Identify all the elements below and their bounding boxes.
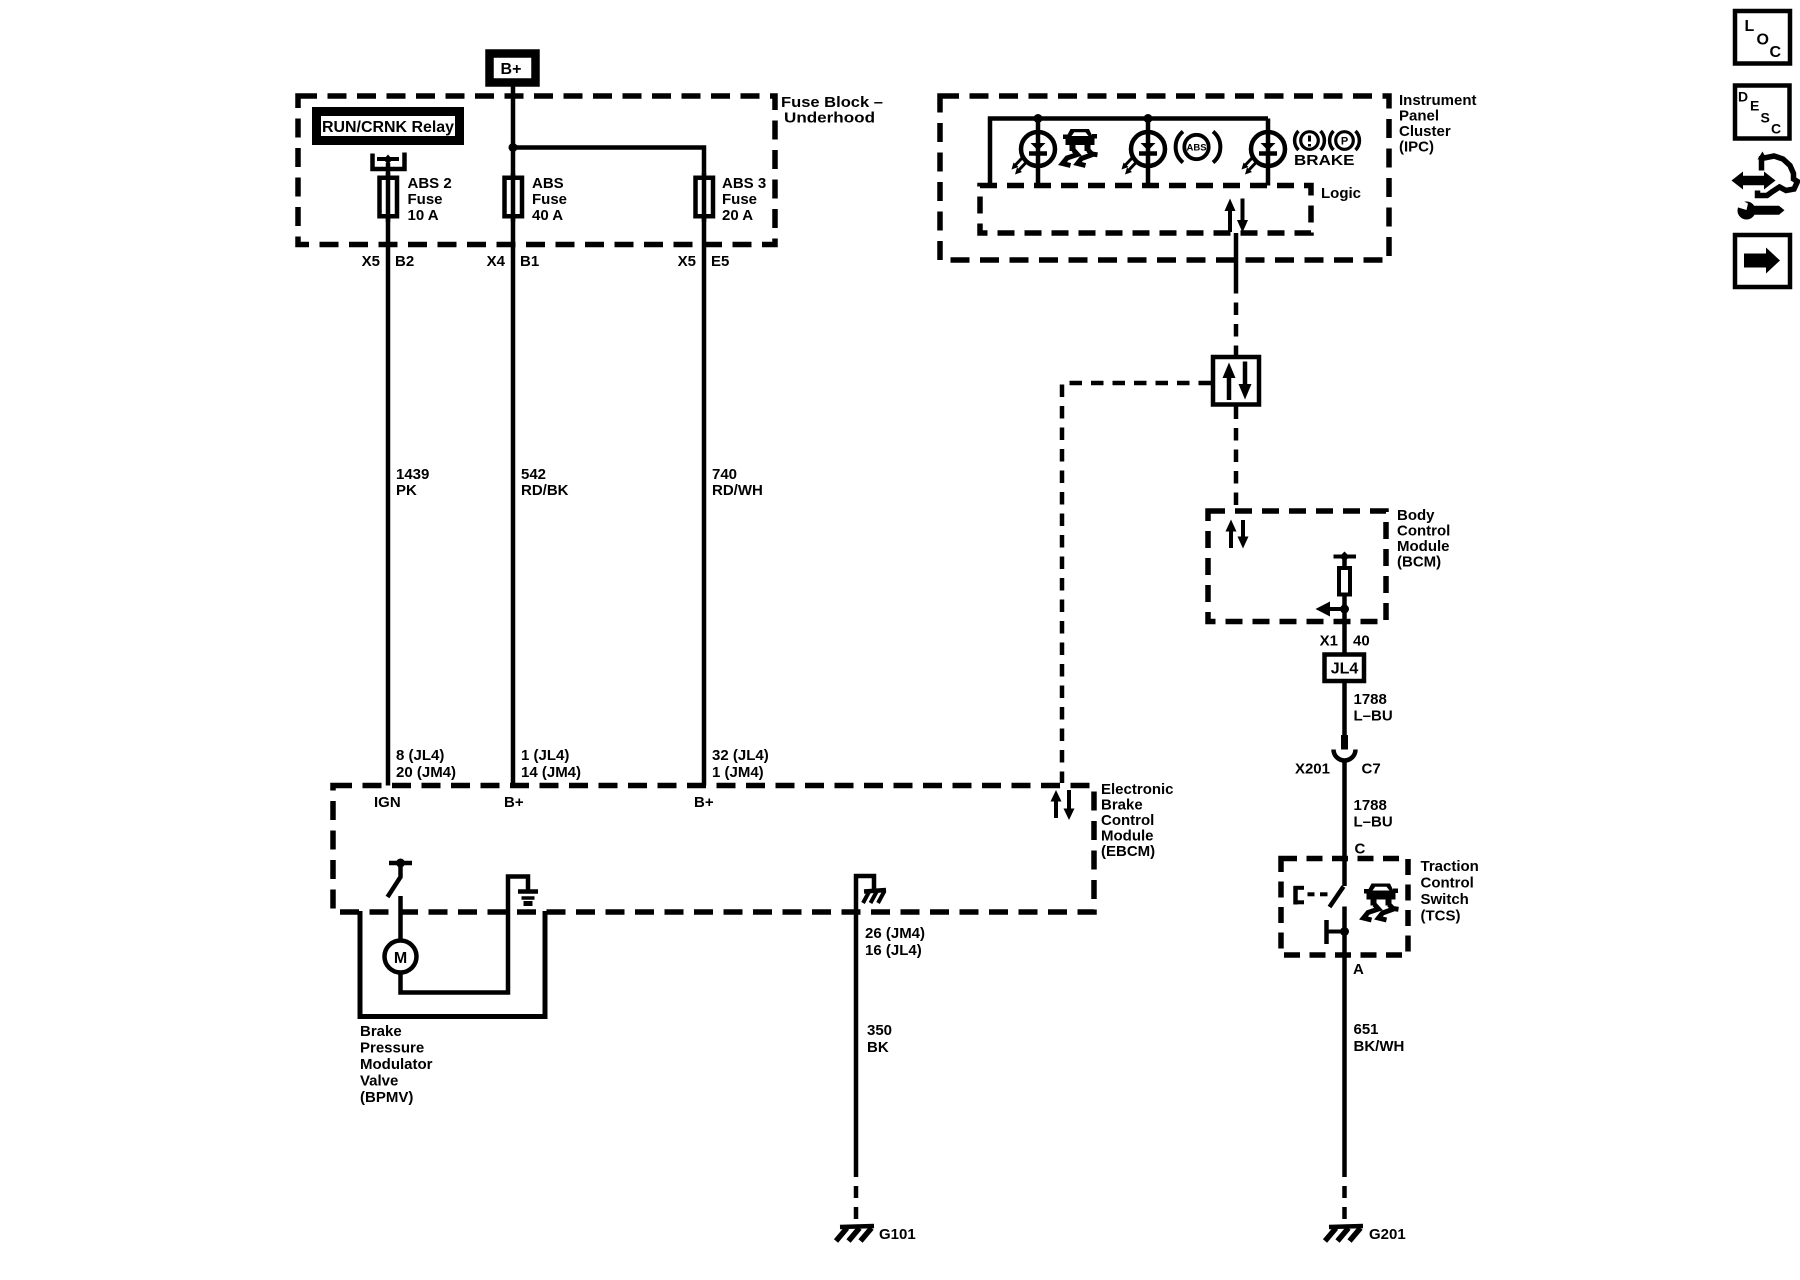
label: ABS 2 Fuse 10 A [408,175,452,224]
label: wire 1439 PK [396,466,429,499]
wire: X201 to TCS [1342,761,1347,887]
wire: IPC serial data out (dashed) [1234,281,1239,355]
svg-text:Fuse Block –: Fuse Block – [781,94,883,111]
LED indicator: traction control lamp [1012,132,1056,175]
fuse ABS 3 20A [696,178,714,217]
label: wire 651 BK/WH [1354,1021,1405,1055]
BCM signal arrow (to logic) [1316,602,1345,617]
label: wire 350 BK [867,1022,892,1056]
svg-text:PK: PK [396,482,417,499]
svg-text:S: S [1761,110,1770,126]
svg-text:Modulator: Modulator [360,1056,433,1073]
wire: B+ feed down through ABS fuse to EBCM [511,86,516,786]
svg-text:ABS: ABS [1186,143,1206,154]
svg-text:Fuse: Fuse [408,191,443,208]
svg-text:16 (JL4): 16 (JL4) [865,942,922,959]
label: wire 1788 L-BU (lower) [1354,797,1393,831]
serial data splice box [1213,357,1259,405]
wire: LED2 drop [1146,119,1151,186]
svg-text:L–BU: L–BU [1354,708,1393,725]
svg-text:(TCS): (TCS) [1421,908,1461,925]
wire: ABS3 fuse down to EBCM [702,216,707,786]
IPC box (dashed) [940,96,1389,260]
relay RUN/CRNK (label box) [317,112,460,141]
option box JL4 [1325,655,1365,682]
label: Brake Pressure Modulator Valve (BPMV) [360,1023,433,1106]
BCM box (dashed) [1208,511,1386,622]
label: Electronic Brake Control Module (EBCM) [1101,781,1174,860]
EBCM internal chassis ground [856,876,886,912]
relay contact output symbol [373,153,405,170]
wire: relay output to fuse ABS2 [386,163,391,786]
svg-text:X5: X5 [678,253,696,270]
svg-text:20 (JM4): 20 (JM4) [396,764,456,781]
svg-text:Body: Body [1397,507,1435,524]
BCM internal supply terminal [1334,552,1357,563]
wire: dashed data line to EBCM [1062,383,1211,783]
svg-text:D: D [1738,89,1748,105]
wire: dashed to G201 [1342,1165,1347,1225]
wire: BCM to JL4 [1342,622,1347,655]
logic serial arrows [1225,199,1249,233]
svg-text:RD/WH: RD/WH [712,482,763,499]
EBCM pump motor switch [388,859,413,898]
svg-text:651: 651 [1354,1021,1379,1038]
svg-text:Pressure: Pressure [360,1040,424,1057]
icon: car with skid marks (IPC) [1063,129,1098,166]
svg-text:B+: B+ [501,61,522,78]
svg-text:14 (JM4): 14 (JM4) [521,764,581,781]
fuse block - underhood (dashed box) [298,96,775,245]
svg-text:Control: Control [1101,812,1154,829]
EBCM box (dashed) [333,786,1094,913]
LED indicator: ABS lamp [1122,132,1166,175]
svg-text:G201: G201 [1369,1226,1406,1243]
svg-text:BK: BK [867,1039,889,1056]
node: bus junction 2 [1144,114,1153,123]
label: ABS 3 Fuse 20 A [722,175,766,224]
label: wire 542 RD/BK [521,466,569,499]
ground (EBCM internal) [518,892,538,904]
svg-text:26 (JM4): 26 (JM4) [865,925,925,942]
label: Body Control Module (BCM) [1397,507,1450,571]
svg-text:(EBCM): (EBCM) [1101,843,1155,860]
ground G201 [1325,1226,1406,1243]
connector pins X5 B2 [362,253,415,270]
TCS box (dashed) [1281,859,1408,956]
svg-text:Cluster: Cluster [1399,123,1451,140]
wire: lamp supply bus [990,119,1268,186]
svg-text:32 (JL4): 32 (JL4) [712,747,769,764]
BPMV housing [360,911,545,1017]
icon: (ABS) [1176,132,1221,163]
wire: dashed data line to BCM [1234,407,1239,510]
svg-text:E5: E5 [711,253,729,270]
connector pins X1 40 [1320,633,1370,650]
svg-text:X4: X4 [487,253,506,270]
TCS lower contact bar [1327,920,1350,944]
svg-text:Fuse: Fuse [532,191,567,208]
svg-text:1 (JM4): 1 (JM4) [712,764,764,781]
svg-text:1 (JL4): 1 (JL4) [521,747,569,764]
svg-text:B1: B1 [520,253,539,270]
svg-text:740: 740 [712,466,737,483]
pin label 8 (JL4) / 20 (JM4) [396,747,456,781]
label: Instrument Panel Cluster (IPC) [1399,92,1477,156]
connector X201 C7 (in-line) [1295,735,1381,778]
wire: JL4 to X201 [1342,681,1347,736]
svg-text:20 A: 20 A [722,207,753,224]
svg-text:Logic: Logic [1321,185,1361,202]
svg-text:C: C [1355,841,1366,858]
svg-text:8 (JL4): 8 (JL4) [396,747,444,764]
node: BCM sense junction [1340,605,1349,614]
svg-text:Brake: Brake [360,1023,402,1040]
svg-text:B2: B2 [395,253,414,270]
svg-text:1788: 1788 [1354,691,1387,708]
wire: LED1 drop [1036,119,1041,186]
svg-text:Instrument: Instrument [1399,92,1477,109]
connector pins X5 E5 [678,253,730,270]
svg-text:1788: 1788 [1354,797,1387,814]
svg-text:B+: B+ [504,794,524,811]
svg-text:BRAKE: BRAKE [1294,152,1355,169]
ground G101 [836,1226,916,1243]
nav icon LOC [1735,11,1790,64]
svg-text:A: A [1353,961,1364,978]
svg-text:G101: G101 [879,1226,916,1243]
svg-text:Control: Control [1421,875,1474,892]
pin label 32 (JL4) / 1 (JM4) [712,747,769,781]
motor M (BPMV pump) [385,941,417,973]
svg-text:X201: X201 [1295,761,1330,778]
nav icon forward arrow [1735,235,1790,287]
svg-text:C: C [1771,121,1781,137]
svg-text:O: O [1757,32,1769,49]
nav icon DESC [1735,86,1790,139]
svg-text:40: 40 [1353,633,1370,650]
wire: branch to ABS 3 fuse [513,148,704,176]
svg-text:X1: X1 [1320,633,1338,650]
label: wire 1788 L-BU (upper) [1354,691,1393,725]
svg-text:B+: B+ [694,794,714,811]
svg-text:10 A: 10 A [408,207,439,224]
svg-text:Electronic: Electronic [1101,781,1174,798]
svg-text:Module: Module [1397,538,1450,555]
wire: motor to internal ground [401,877,529,993]
LED indicator: brake lamp [1242,132,1286,175]
connector pins X4 B1 [487,253,540,270]
label: Fuse Block - Underhood [781,94,883,127]
resistor (BCM pull-up) [1339,557,1350,622]
svg-text:M: M [394,950,407,967]
icon: car with skid marks (TCS) [1364,884,1399,921]
svg-text:IGN: IGN [374,794,401,811]
svg-text:(BCM): (BCM) [1397,554,1441,571]
svg-text:Brake: Brake [1101,797,1143,814]
EBCM serial data arrows [1051,790,1075,820]
svg-text:P: P [1341,136,1348,148]
wire: switch lower contact through TCS [1342,907,1347,1166]
label: ABS Fuse 40 A [532,175,567,224]
svg-text:E: E [1750,98,1759,114]
svg-text:L–BU: L–BU [1354,814,1393,831]
svg-text:ABS 3: ABS 3 [722,175,766,192]
svg-text:Underhood: Underhood [784,110,875,127]
svg-text:X5: X5 [362,253,380,270]
wire: switch to motor [398,896,403,941]
power terminal B+ [490,54,536,83]
wire: IPC serial data out (solid) [1234,233,1239,281]
svg-text:542: 542 [521,466,546,483]
svg-text:L: L [1745,18,1755,35]
pin label 1 (JL4) / 14 (JM4) [521,747,581,781]
nav icon connector/wrench [1732,152,1798,220]
svg-text:Panel: Panel [1399,108,1439,125]
svg-text:ABS 2: ABS 2 [408,175,452,192]
svg-text:350: 350 [867,1022,892,1039]
svg-text:Traction: Traction [1421,858,1479,875]
svg-text:C7: C7 [1362,761,1381,778]
svg-text:(IPC): (IPC) [1399,139,1434,156]
svg-text:Control: Control [1397,523,1450,540]
svg-text:JL4: JL4 [1331,661,1359,678]
svg-text:RUN/CRNK Relay: RUN/CRNK Relay [322,119,454,136]
wire: LED3 drop [1266,119,1271,186]
fuse ABS 40A [505,178,523,217]
svg-text:Module: Module [1101,828,1154,845]
svg-text:RD/BK: RD/BK [521,482,569,499]
TCS momentary switch [1294,886,1344,907]
node: bus junction 1 [1034,114,1043,123]
icon: (!) (P) BRAKE [1294,131,1359,169]
svg-text:ABS: ABS [532,175,564,192]
wire: 350 BK ground wire [854,912,859,1165]
label: Traction Control Switch (TCS) [1421,858,1479,925]
svg-text:Valve: Valve [360,1073,398,1090]
svg-text:1439: 1439 [396,466,429,483]
svg-text:40 A: 40 A [532,207,563,224]
wire: dashed to G101 [854,1165,859,1225]
svg-text:BK/WH: BK/WH [1354,1038,1405,1055]
label: wire 740 RD/WH [712,466,763,499]
svg-text:Switch: Switch [1421,891,1469,908]
svg-text:Fuse: Fuse [722,191,757,208]
svg-text:C: C [1770,44,1782,61]
BCM serial data arrows [1226,520,1249,549]
node: B+ branch junction [509,143,518,152]
logic box (dashed) [980,186,1311,234]
svg-text:(BPMV): (BPMV) [360,1089,413,1106]
pin label 26 (JM4) / 16 (JL4) [865,925,925,959]
fuse ABS 2 10A [380,178,398,217]
